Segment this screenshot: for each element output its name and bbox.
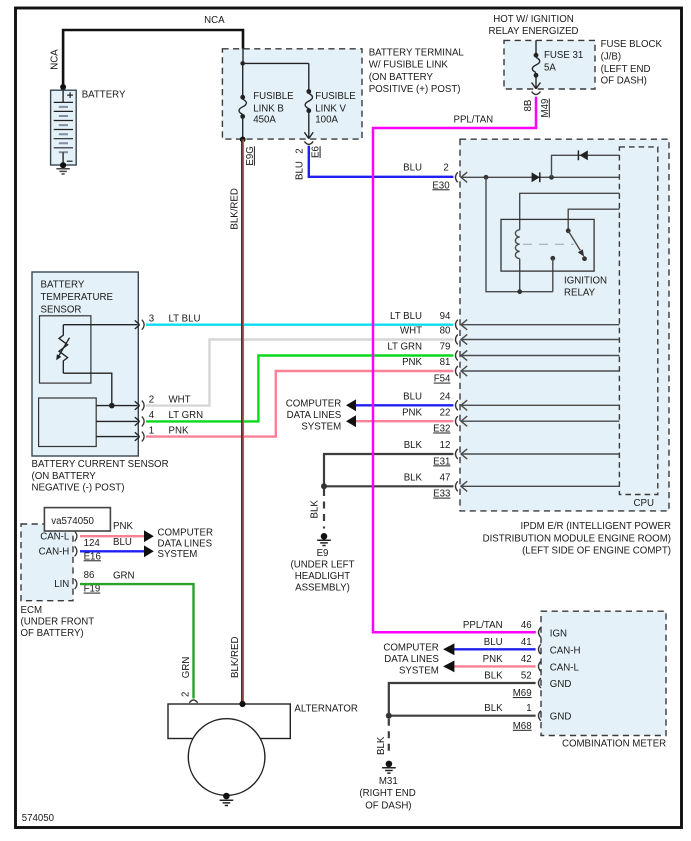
svg-text:ASSEMBLY): ASSEMBLY) — [295, 583, 350, 594]
battery plus terminal label — [67, 92, 73, 98]
wire BLK IPDM 12 — [324, 454, 453, 486]
svg-text:FUSE 31: FUSE 31 — [544, 50, 583, 61]
relay coil L1 — [515, 230, 519, 259]
svg-text:IGN: IGN — [550, 628, 567, 639]
pin 4 chevron and connector — [135, 417, 140, 426]
svg-text:81: 81 — [440, 357, 451, 368]
svg-text:47: 47 — [440, 473, 451, 484]
svg-text:LINK V: LINK V — [315, 103, 346, 114]
svg-text:E9G: E9G — [245, 146, 256, 165]
pin 1 chevron and connector — [135, 432, 140, 441]
wire inside fusible box — [243, 49, 309, 64]
svg-text:FUSE BLOCK: FUSE BLOCK — [601, 39, 663, 50]
svg-text:OF DASH): OF DASH) — [365, 800, 411, 811]
wire branch up to diode D2 — [552, 155, 620, 177]
svg-text:W/ FUSIBLE LINK: W/ FUSIBLE LINK — [369, 60, 449, 71]
wire pin3 — [63, 324, 137, 326]
svg-text:COMPUTER: COMPUTER — [158, 528, 213, 539]
svg-text:E31: E31 — [433, 456, 450, 467]
ECM pin LIN connector — [75, 579, 77, 589]
node fusible link B output at box edge — [240, 137, 246, 143]
relay switch contact — [582, 256, 587, 261]
battery bottom stem — [62, 152, 64, 165]
IPDM pin 80 stub — [456, 334, 620, 344]
ground battery negative — [56, 169, 69, 174]
svg-text:CAN-H: CAN-H — [39, 546, 70, 557]
node battery negative — [60, 162, 66, 168]
svg-text:NCA: NCA — [50, 49, 61, 70]
svg-text:BLK/RED: BLK/RED — [230, 637, 241, 678]
node after diode — [549, 175, 554, 180]
svg-text:COMPUTER: COMPUTER — [383, 642, 438, 653]
thermistor arrow — [58, 338, 69, 357]
svg-text:2: 2 — [443, 163, 448, 174]
svg-text:86: 86 — [84, 570, 95, 581]
wire BLU CAN-H meter — [453, 648, 536, 650]
svg-text:BLK: BLK — [310, 500, 321, 519]
node BLK meter ground junction — [386, 713, 392, 719]
battery BAT1 — [51, 90, 77, 165]
svg-text:BLK: BLK — [404, 440, 423, 451]
svg-text:FUSIBLE: FUSIBLE — [315, 91, 356, 102]
svg-text:E33: E33 — [433, 489, 450, 500]
relay switch common contact — [566, 228, 571, 233]
wire WHT pin2 to IPDM 80 — [146, 340, 453, 406]
battery short plates — [59, 107, 68, 152]
svg-text:52: 52 — [521, 671, 532, 682]
svg-text:BLK: BLK — [376, 736, 387, 755]
svg-text:DISTRIBUTION MODULE ENGINE ROO: DISTRIBUTION MODULE ENGINE ROOM) — [483, 533, 671, 544]
wire coil bottom — [519, 259, 521, 292]
svg-text:WHT: WHT — [400, 326, 422, 337]
svg-text:BLK/RED: BLK/RED — [230, 188, 241, 229]
svg-text:LIN: LIN — [54, 579, 69, 590]
ground E9 — [321, 533, 328, 540]
IPDM E/R box — [460, 139, 669, 511]
IPDM pin 12 stub — [456, 449, 620, 459]
svg-text:BLU: BLU — [294, 161, 305, 180]
diode D1 — [532, 172, 540, 182]
svg-text:RELAY: RELAY — [564, 288, 596, 299]
svg-text:1: 1 — [149, 425, 154, 436]
svg-text:(ON BATTERY: (ON BATTERY — [32, 471, 97, 482]
svg-text:BATTERY CURRENT SENSOR: BATTERY CURRENT SENSOR — [32, 459, 169, 470]
svg-text:2: 2 — [181, 692, 192, 697]
battery top plate stem — [62, 90, 64, 102]
svg-text:HOT W/ IGNITION: HOT W/ IGNITION — [493, 14, 574, 25]
svg-text:COMBINATION METER: COMBINATION METER — [562, 738, 666, 749]
svg-text:LT GRN: LT GRN — [169, 410, 204, 421]
thermistor RT1 — [59, 325, 68, 374]
connector IGN arc — [539, 627, 541, 637]
connector GND52 arc — [539, 678, 541, 688]
svg-text:LINK B: LINK B — [253, 103, 284, 114]
svg-text:E30: E30 — [432, 180, 450, 191]
svg-text:PNK: PNK — [169, 425, 189, 436]
wire BLK/RED red stripe — [242, 139, 244, 704]
wire thermistor return — [63, 373, 112, 405]
wire pin1 — [96, 436, 137, 438]
svg-text:E16: E16 — [84, 551, 101, 562]
svg-text:E9: E9 — [317, 548, 329, 559]
IPDM pin 22 stub — [456, 416, 620, 426]
wire GRN LIN to alternator — [80, 584, 194, 698]
svg-text:BLU: BLU — [403, 392, 422, 403]
svg-text:M31: M31 — [379, 776, 398, 787]
wire BLU E6 to E30 — [309, 146, 454, 177]
wire BLK dashed to E9 — [323, 489, 325, 529]
fusible link V 100A — [305, 63, 312, 138]
IPDM pin 81 stub — [456, 366, 620, 376]
svg-text:79: 79 — [440, 342, 451, 353]
combination meter box — [541, 611, 666, 735]
svg-text:HEADLIGHT: HEADLIGHT — [295, 571, 351, 582]
svg-text:ALTERNATOR: ALTERNATOR — [294, 703, 358, 714]
svg-text:(UNDER LEFT: (UNDER LEFT — [290, 560, 354, 571]
IPDM pin 24 stub — [456, 400, 620, 410]
svg-text:BATTERY: BATTERY — [82, 90, 126, 101]
wire BLK/RED black stripe — [241, 139, 243, 704]
wire main feed inside IPDM — [461, 176, 619, 178]
relay switch arm — [568, 231, 580, 250]
svg-text:PPL/TAN: PPL/TAN — [454, 114, 494, 125]
svg-text:(RIGHT END: (RIGHT END — [359, 788, 415, 799]
svg-text:CAN-L: CAN-L — [40, 531, 70, 542]
svg-text:PNK: PNK — [113, 521, 133, 532]
current sensor inner box — [39, 398, 97, 447]
svg-text:2: 2 — [149, 394, 154, 405]
svg-text:42: 42 — [521, 654, 532, 665]
connector GND1 arc — [539, 711, 541, 721]
svg-text:E6: E6 — [311, 146, 322, 158]
wire pin2 — [96, 405, 137, 407]
svg-text:100A: 100A — [315, 115, 338, 126]
svg-text:80: 80 — [440, 326, 451, 337]
svg-text:BLK: BLK — [404, 473, 423, 484]
wire PNK CAN-L meter — [453, 665, 536, 667]
svg-text:TEMPERATURE: TEMPERATURE — [41, 292, 114, 303]
node thermistor to pin2 — [109, 403, 115, 409]
svg-text:5A: 5A — [544, 62, 556, 73]
svg-text:FUSIBLE: FUSIBLE — [253, 91, 294, 102]
wire PNK pin1 to IPDM 81 — [146, 371, 453, 437]
svg-text:M69: M69 — [513, 688, 532, 699]
svg-text:DATA LINES: DATA LINES — [384, 654, 439, 665]
svg-text:CPU: CPU — [634, 498, 654, 509]
ECM pin CAN-L connector — [75, 531, 77, 541]
node BLK ground junction — [321, 483, 327, 489]
battery minus terminal label — [67, 160, 73, 162]
svg-text:124: 124 — [84, 538, 101, 549]
battery long plates — [54, 102, 73, 147]
svg-text:POSITIVE (+) POST): POSITIVE (+) POST) — [369, 84, 461, 95]
svg-text:DATA LINES: DATA LINES — [287, 410, 342, 421]
svg-text:1: 1 — [526, 703, 531, 714]
svg-text:(UNDER FRONT: (UNDER FRONT — [21, 617, 95, 628]
svg-text:(ON BATTERY: (ON BATTERY — [369, 72, 434, 83]
svg-text:LT BLU: LT BLU — [390, 311, 422, 322]
fusible link box (battery terminal) — [222, 49, 362, 139]
stamp box va574050 — [44, 508, 110, 531]
fusible link B 450A — [239, 63, 246, 139]
wire PNK CAN-L — [80, 535, 145, 537]
node switch return — [550, 256, 555, 261]
CPU inner box — [619, 147, 657, 495]
svg-text:PNK: PNK — [483, 654, 503, 665]
wire PNK IPDM 22 to data lines — [355, 420, 454, 422]
wire switch top to CPU — [568, 209, 619, 231]
wire BLK IPDM 47 — [324, 485, 453, 487]
svg-text:GRN: GRN — [181, 657, 192, 679]
node battery positive junction — [60, 84, 66, 90]
svg-text:SYSTEM: SYSTEM — [158, 549, 198, 560]
wire BLU IPDM 24 to data lines — [355, 404, 454, 406]
IPDM pin 79 stub — [456, 350, 620, 360]
fuse block J/B box — [504, 40, 595, 89]
svg-text:ECM: ECM — [21, 605, 43, 616]
svg-text:PNK: PNK — [402, 357, 422, 368]
connector CAN-L arc — [539, 661, 541, 671]
arrow into connector E6 — [304, 132, 313, 138]
svg-text:BATTERY TERMINAL: BATTERY TERMINAL — [369, 47, 465, 58]
wire PPL/TAN fuse 31 to combination meter — [373, 97, 536, 633]
svg-text:F54: F54 — [434, 374, 451, 385]
svg-text:(J/B): (J/B) — [601, 52, 621, 63]
wire BLU CAN-H — [80, 550, 145, 552]
fuse 31 5A — [532, 40, 539, 88]
pin 2 chevron and connector — [135, 401, 140, 410]
svg-text:RELAY ENERGIZED: RELAY ENERGIZED — [488, 26, 578, 37]
IPDM pin 47 stub — [456, 481, 620, 491]
svg-text:12: 12 — [440, 440, 451, 451]
svg-text:CAN-H: CAN-H — [550, 645, 581, 656]
svg-text:GRN: GRN — [113, 570, 135, 581]
svg-text:2: 2 — [294, 148, 305, 153]
svg-text:WHT: WHT — [169, 394, 191, 405]
svg-text:NCA: NCA — [204, 15, 225, 26]
wire LT GRN pin4 to IPDM 79 — [146, 356, 453, 422]
node BLK/RED at alternator — [239, 701, 245, 707]
svg-text:LT GRN: LT GRN — [387, 342, 422, 353]
svg-text:46: 46 — [521, 620, 532, 631]
ECM box — [21, 524, 73, 601]
wire coil return bottom — [486, 177, 553, 291]
svg-text:22: 22 — [440, 407, 451, 418]
alternator rotor circle — [188, 719, 265, 796]
wire LT BLU pin3 to IPDM 94 — [146, 324, 453, 326]
svg-text:4: 4 — [149, 410, 155, 421]
svg-text:COMPUTER: COMPUTER — [286, 398, 341, 409]
battery current sensor box — [32, 272, 138, 456]
node main junction — [484, 175, 489, 180]
svg-text:CAN-L: CAN-L — [550, 662, 580, 673]
svg-text:OF DASH): OF DASH) — [601, 76, 647, 87]
svg-text:IPDM E/R (INTELLIGENT POWER: IPDM E/R (INTELLIGENT POWER — [520, 521, 671, 532]
svg-text:PNK: PNK — [402, 407, 422, 418]
wire BLK dashed to M31 — [388, 719, 390, 756]
svg-text:PPL/TAN: PPL/TAN — [463, 620, 503, 631]
svg-text:M68: M68 — [513, 721, 532, 732]
arrowhead at E30 entry — [461, 172, 467, 182]
temperature sensor inner box — [40, 316, 91, 383]
wire pin4 — [96, 420, 137, 422]
ground alternator — [223, 793, 230, 800]
svg-text:M49: M49 — [540, 99, 551, 118]
wire switch return down — [552, 258, 554, 291]
ground M31 — [386, 761, 393, 768]
connector M49 arc — [532, 92, 541, 95]
svg-text:IGNITION: IGNITION — [564, 275, 607, 286]
IPDM pin 94 stub — [456, 320, 620, 330]
alternator body — [168, 704, 290, 739]
relay box outline — [501, 219, 594, 271]
svg-text:8B: 8B — [523, 100, 534, 112]
svg-text:41: 41 — [521, 637, 532, 648]
diode D2 — [580, 150, 588, 160]
svg-text:NEGATIVE (-) POST): NEGATIVE (-) POST) — [32, 483, 125, 494]
node coil bottom junction — [517, 289, 522, 294]
svg-text:OF BATTERY): OF BATTERY) — [21, 628, 84, 639]
svg-text:E32: E32 — [433, 424, 450, 435]
svg-text:GND: GND — [550, 679, 572, 690]
svg-text:GND: GND — [550, 712, 572, 723]
node fusible link feed — [240, 61, 245, 66]
svg-text:BLK: BLK — [484, 671, 503, 682]
ECM pin CAN-H connector — [75, 546, 77, 556]
relay mechanical link dashed — [523, 243, 574, 245]
svg-text:450A: 450A — [253, 115, 276, 126]
svg-text:LT BLU: LT BLU — [169, 314, 201, 325]
svg-text:BLU: BLU — [484, 637, 503, 648]
wire BLK GND1 — [389, 715, 536, 717]
connector E30 arc — [456, 172, 458, 182]
svg-text:DATA LINES: DATA LINES — [158, 538, 213, 549]
alternator connector 2 arc — [189, 700, 197, 703]
svg-text:(LEFT SIDE OF ENGINE COMPT): (LEFT SIDE OF ENGINE COMPT) — [522, 546, 671, 557]
svg-text:BATTERY: BATTERY — [41, 280, 85, 291]
svg-text:574050: 574050 — [22, 813, 55, 824]
svg-text:94: 94 — [440, 311, 451, 322]
arrow into connector M49 — [532, 83, 541, 89]
svg-text:3: 3 — [149, 314, 154, 325]
svg-text:SYSTEM: SYSTEM — [301, 421, 341, 432]
connector CAN-H arc — [539, 644, 541, 654]
svg-text:24: 24 — [440, 392, 451, 403]
wire BLK GND52 — [389, 683, 536, 716]
svg-text:(LEFT END: (LEFT END — [601, 64, 651, 75]
svg-text:BLU: BLU — [403, 163, 422, 174]
pin 3 chevron and connector — [135, 320, 140, 329]
svg-text:SENSOR: SENSOR — [41, 304, 82, 315]
svg-text:BLU: BLU — [113, 537, 132, 548]
svg-text:BLK: BLK — [484, 703, 503, 714]
svg-text:SYSTEM: SYSTEM — [399, 666, 439, 677]
svg-text:va574050: va574050 — [51, 516, 94, 527]
wire NCA battery to fusible link box — [63, 30, 243, 87]
wire coil top to CPU — [520, 193, 620, 230]
connector E6 arc — [304, 141, 313, 144]
